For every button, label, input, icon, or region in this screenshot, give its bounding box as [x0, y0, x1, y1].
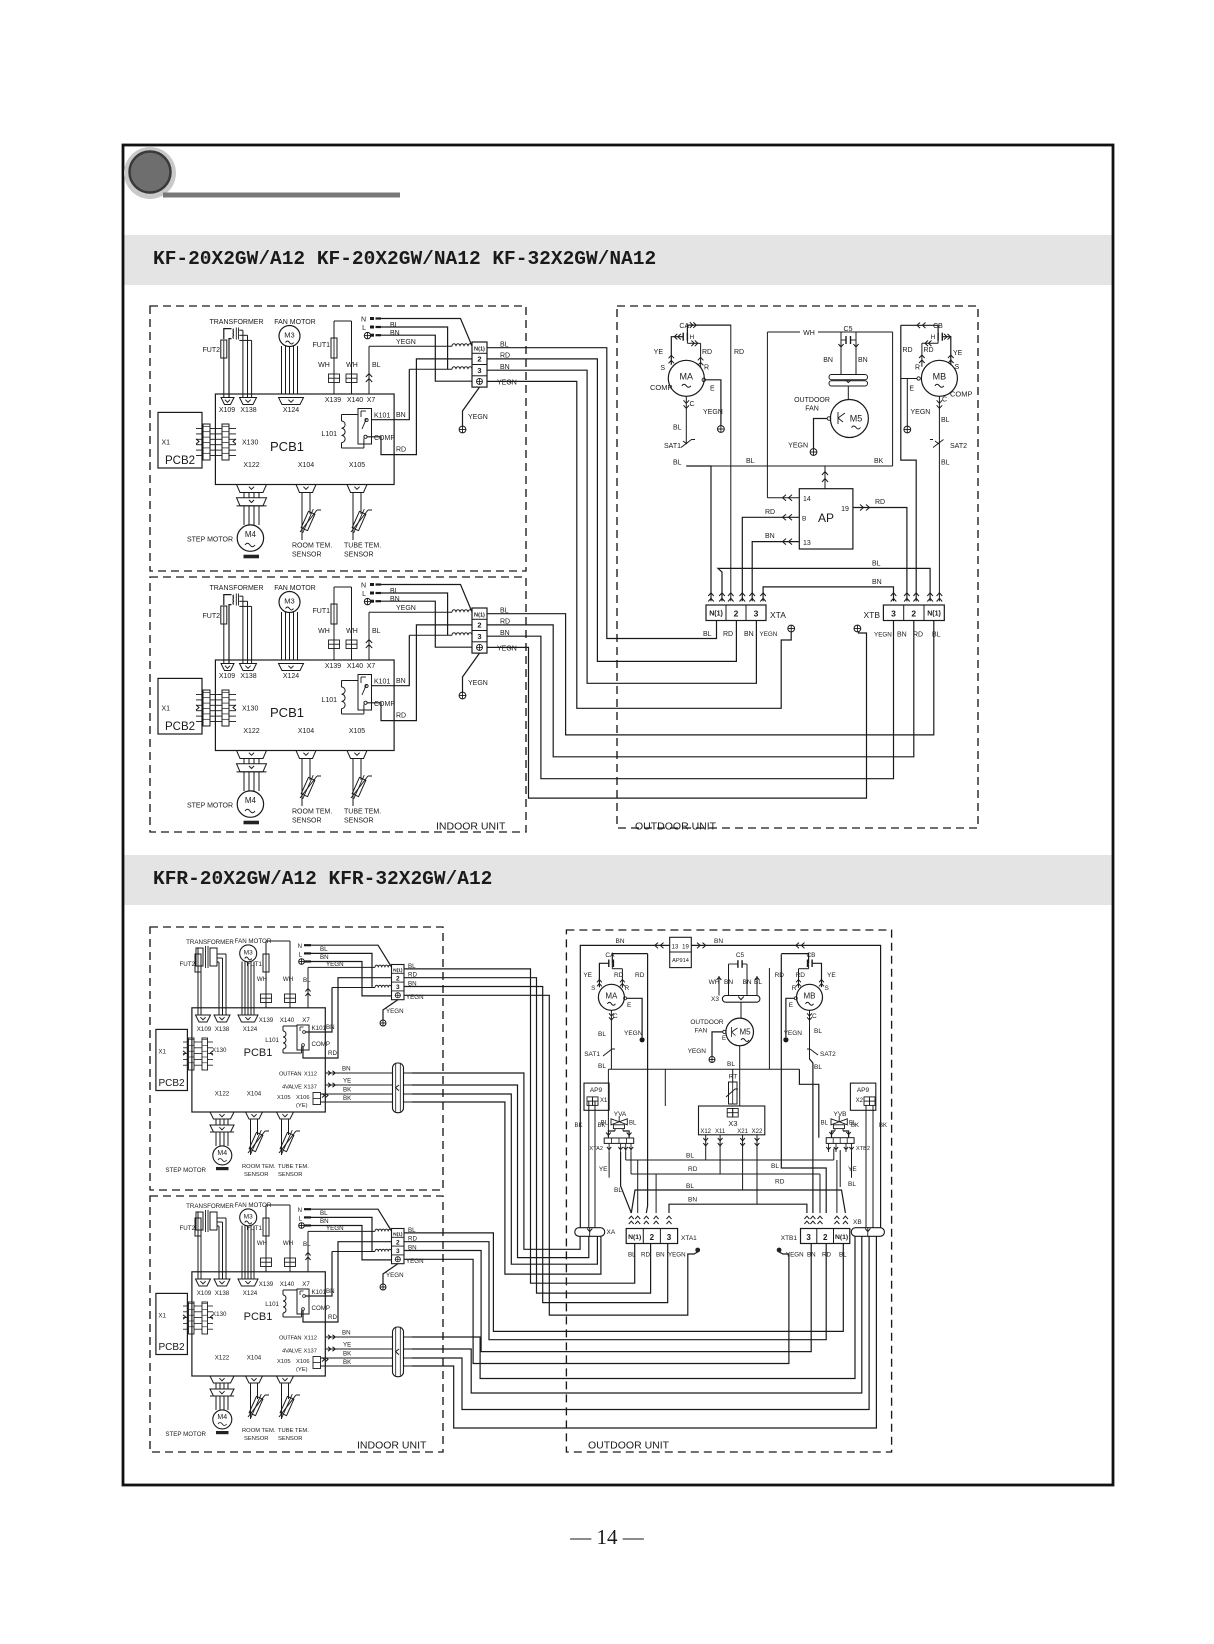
svg-text:S: S: [591, 985, 596, 992]
svg-text:WH: WH: [346, 628, 358, 635]
svg-text:YE: YE: [953, 350, 963, 357]
wires BN YE BK BK d2: [325, 1336, 392, 1338]
connector X124: [279, 664, 304, 671]
svg-text:R: R: [625, 985, 630, 992]
svg-text:BL: BL: [814, 1028, 822, 1035]
outdoor fan M5 d2: [726, 1018, 754, 1046]
svg-text:E: E: [722, 1036, 726, 1042]
wire BN line (y1204): [669, 1204, 807, 1213]
arrow into XTB1: [810, 1216, 815, 1219]
svg-text:BL: BL: [754, 979, 762, 986]
svg-text:RD: RD: [903, 347, 913, 354]
svg-text:FUT2: FUT2: [203, 347, 221, 354]
terminal block XTB1: [801, 1229, 850, 1244]
svg-text:X11: X11: [715, 1129, 726, 1135]
svg-text:YEGN: YEGN: [386, 1272, 404, 1279]
svg-text:SAT1: SAT1: [664, 443, 681, 450]
svg-text:BL: BL: [821, 1121, 829, 1127]
svg-text:XB: XB: [853, 1219, 862, 1226]
terminal XTB2: [826, 1138, 854, 1144]
step motor M4 d2: [213, 1410, 232, 1429]
logo underline bar: [163, 193, 400, 198]
ribbon X1-X130: [203, 424, 210, 460]
overload protector: [829, 375, 868, 380]
wires AP9 to XA: [588, 1101, 590, 1228]
svg-text:2: 2: [823, 1233, 828, 1242]
fuse: [331, 338, 337, 358]
svg-text:BK: BK: [343, 1351, 352, 1358]
ribbon X1-X130 d2: [189, 1302, 195, 1334]
svg-text:BL: BL: [932, 632, 941, 639]
inductor filter upper: [452, 344, 472, 347]
svg-text:19: 19: [682, 945, 689, 951]
wire X3 pin down: [742, 1135, 744, 1190]
wire RD cap to R: [937, 337, 939, 344]
wire MB C down to XTB1: [810, 1059, 813, 1213]
wire RD indoor2 to XTB: [487, 621, 914, 757]
svg-text:BN: BN: [320, 1218, 329, 1225]
arrow into XTA1: [667, 1216, 672, 1219]
svg-text:X112: X112: [304, 1072, 317, 1078]
arrow into XTA: [708, 593, 714, 596]
pin E MB: [917, 377, 920, 380]
terminal block indoor unit 2: [472, 608, 487, 653]
svg-text:X1: X1: [158, 1049, 166, 1056]
wire RD comp d2: [303, 1242, 392, 1322]
inter-unit connector pill d2: [393, 1327, 404, 1377]
wire YEGN below TB d2: [383, 1264, 398, 1284]
svg-text:BL: BL: [941, 460, 950, 467]
ground: [854, 625, 861, 632]
svg-text:BN: BN: [396, 678, 406, 685]
svg-text:RD: RD: [775, 1179, 785, 1186]
svg-text:E: E: [909, 386, 914, 393]
svg-text:RD: RD: [614, 972, 624, 979]
pin C MB down: [938, 396, 940, 443]
svg-text:C5: C5: [844, 326, 853, 333]
wire L: [379, 593, 448, 635]
svg-text:SAT1: SAT1: [584, 1051, 600, 1058]
svg-text:M4: M4: [217, 1150, 227, 1157]
dashed box outdoor unit (diagram 2): [566, 930, 891, 1452]
ground: [459, 426, 466, 433]
svg-text:BL: BL: [629, 1121, 637, 1127]
svg-text:X130: X130: [212, 1311, 227, 1318]
svg-text:N(1): N(1): [835, 1234, 848, 1241]
svg-text:YEGN: YEGN: [497, 380, 517, 387]
wire AP top to fan bottom: [824, 466, 826, 489]
wire BN indoor2 to XTB: [487, 621, 894, 779]
svg-text:(YE): (YE): [296, 1367, 308, 1373]
svg-text:X105: X105: [349, 462, 365, 469]
ribbon X1-X130: [203, 690, 210, 726]
wires WH BL into fan connector: [718, 976, 720, 996]
svg-text:BL: BL: [849, 1121, 857, 1127]
svg-text:STEP MOTOR: STEP MOTOR: [165, 1431, 206, 1438]
wire branch to XTA2: [607, 1069, 609, 1131]
svg-text:X7: X7: [302, 1281, 310, 1288]
step motor M4: [237, 525, 263, 551]
wires AP9 to XB: [865, 1105, 867, 1227]
terminal block indoor d2 unit 2: [392, 1229, 405, 1264]
svg-text:AP9: AP9: [857, 1087, 870, 1094]
wire BK pill2 to XB: [412, 1236, 869, 1409]
svg-text:L101: L101: [265, 1037, 279, 1044]
wire N to terminal block: [379, 319, 472, 347]
wire BN indoor2 d2 to XTB1: [404, 1244, 811, 1352]
wire YEGN MB ground: [906, 379, 908, 427]
terminal block XTA: [706, 605, 766, 621]
svg-text:X105: X105: [277, 1095, 291, 1101]
svg-text:RD: RD: [775, 972, 785, 979]
svg-text:YEGN: YEGN: [668, 1252, 686, 1259]
svg-text:XTB: XTB: [863, 610, 880, 620]
svg-text:YE: YE: [599, 1166, 608, 1173]
svg-text:N: N: [298, 944, 302, 950]
dashed box indoor unit 1: [150, 306, 526, 571]
svg-text:BN: BN: [320, 954, 329, 961]
svg-text:N(1): N(1): [393, 1231, 403, 1237]
svg-text:C: C: [812, 1013, 817, 1020]
svg-text:MB: MB: [804, 991, 816, 1000]
svg-text:X138: X138: [215, 1026, 230, 1033]
svg-text:X112: X112: [304, 1336, 317, 1342]
svg-text:BK: BK: [343, 1087, 352, 1094]
wire BN relay to line: [372, 635, 410, 685]
connector X124 d2: [238, 1015, 258, 1022]
svg-text:3: 3: [396, 984, 400, 991]
ground: [364, 332, 370, 338]
svg-text:BL: BL: [303, 1241, 311, 1248]
arrow into XTA1: [629, 1216, 634, 1219]
svg-text:M3: M3: [284, 597, 294, 606]
connector X140 d2: [285, 994, 291, 1003]
arrow into XTB1: [818, 1216, 823, 1219]
wire YEGN indoor1 d2 to ground dot: [404, 995, 698, 1315]
svg-text:COMP: COMP: [950, 390, 973, 399]
wire L d2: [311, 953, 372, 987]
svg-text:S: S: [660, 365, 665, 372]
svg-text:BN: BN: [396, 412, 406, 419]
connector X105 sensor d2: [277, 1112, 294, 1119]
svg-text:BN: BN: [390, 330, 400, 337]
svg-text:S: S: [825, 985, 830, 992]
wire YE left: [608, 1152, 610, 1178]
svg-text:C: C: [613, 1013, 618, 1020]
svg-text:MA: MA: [680, 371, 694, 381]
svg-text:FUT2: FUT2: [180, 1225, 196, 1232]
svg-text:BL: BL: [673, 425, 682, 432]
svg-text:3: 3: [754, 609, 759, 619]
svg-text:TUBE TEM.: TUBE TEM.: [278, 1428, 309, 1434]
svg-text:X109: X109: [219, 407, 235, 414]
arrow into XTB: [904, 593, 910, 596]
svg-text:AP914: AP914: [672, 958, 689, 964]
svg-text:XTB1: XTB1: [781, 1235, 798, 1242]
arrow into XTB: [927, 593, 933, 596]
wire YEGN below TB d2: [383, 1000, 398, 1020]
svg-text:BN: BN: [326, 1024, 335, 1031]
svg-text:TRANSFORMER: TRANSFORMER: [209, 585, 263, 592]
svg-text:CB: CB: [806, 952, 815, 959]
svg-text:TUBE TEM.: TUBE TEM.: [278, 1164, 309, 1170]
svg-text:BN: BN: [688, 1197, 697, 1204]
fuse: [331, 604, 337, 624]
svg-text:BL: BL: [686, 1153, 694, 1160]
arrow into XTB1: [804, 1216, 809, 1219]
svg-text:SENSOR: SENSOR: [244, 1436, 268, 1442]
svg-text:K101: K101: [374, 679, 390, 686]
svg-text:L: L: [362, 325, 366, 332]
svg-text:FUT1: FUT1: [313, 342, 331, 349]
svg-text:SENSOR: SENSOR: [292, 552, 322, 559]
compressor MA: [668, 360, 704, 396]
svg-text:N(1): N(1): [628, 1234, 641, 1241]
svg-text:WH: WH: [283, 976, 293, 983]
svg-text:X21: X21: [737, 1129, 748, 1135]
wire BL line 1 (y1160): [625, 1152, 627, 1160]
svg-text:BN: BN: [724, 979, 733, 986]
svg-text:(YE): (YE): [296, 1103, 308, 1109]
svg-text:RD: RD: [702, 349, 712, 356]
svg-text:R: R: [915, 365, 920, 372]
svg-text:X139: X139: [259, 1017, 274, 1024]
svg-text:RD: RD: [635, 972, 645, 979]
svg-text:OUTDOOR: OUTDOOR: [690, 1019, 724, 1026]
wire BN AP914 right: [691, 945, 880, 1227]
connector X139: [329, 640, 335, 649]
wire B RD to XTA-2: [742, 517, 799, 601]
svg-text:YE: YE: [583, 972, 592, 979]
svg-text:ROOM TEM.: ROOM TEM.: [292, 543, 332, 550]
svg-text:BL: BL: [598, 1063, 606, 1070]
wire YEGN to ground below terminal block: [463, 387, 480, 426]
inductor filter lower: [452, 367, 472, 370]
svg-text:C5: C5: [736, 952, 745, 959]
dashed box indoor unit 2: [150, 577, 526, 832]
svg-text:2: 2: [734, 609, 739, 619]
svg-text:WH: WH: [257, 976, 267, 983]
svg-text:FUT1: FUT1: [313, 608, 331, 615]
wire RD comp d2: [303, 978, 392, 1058]
wire MA C joins BL line: [610, 1059, 612, 1069]
svg-text:YEGN: YEGN: [760, 631, 778, 638]
svg-text:RD: RD: [924, 347, 934, 354]
connector X139 d2: [261, 994, 267, 1003]
svg-text:BL: BL: [320, 946, 328, 953]
svg-text:BN: BN: [897, 632, 907, 639]
svg-text:BL: BL: [614, 1187, 622, 1194]
svg-text:3: 3: [891, 609, 896, 619]
wire BL line 2 (y1190): [631, 1190, 845, 1213]
svg-text:X140: X140: [347, 663, 363, 670]
wire BN relay to line: [372, 369, 410, 419]
ground: [718, 426, 725, 433]
svg-text:H: H: [689, 334, 694, 341]
svg-text:BN: BN: [615, 938, 624, 945]
svg-text:BL: BL: [372, 362, 381, 369]
svg-text:COMP: COMP: [374, 435, 395, 442]
thermistor: [351, 508, 368, 535]
fuse: [195, 1218, 201, 1236]
thermistor: [248, 1129, 265, 1156]
svg-text:PCB1: PCB1: [270, 705, 304, 720]
wire N to terminal block: [379, 585, 472, 613]
arrow into XTA: [749, 593, 755, 596]
connector X140 d2: [285, 1258, 291, 1267]
connector X139 d2: [261, 1258, 267, 1267]
svg-text:OUTDOOR UNIT: OUTDOOR UNIT: [635, 821, 717, 833]
svg-text:BL: BL: [746, 458, 755, 465]
PCB2: [158, 412, 202, 468]
control box AP914: [670, 937, 692, 967]
svg-text:2: 2: [396, 975, 400, 982]
wire BN indoor1 to XTA: [487, 370, 756, 683]
ground: [364, 598, 370, 604]
svg-text:AP9: AP9: [590, 1087, 603, 1094]
svg-text:BN: BN: [858, 357, 868, 364]
inductors d2: [375, 1229, 391, 1231]
connector X105 sensor d2: [277, 1376, 294, 1383]
svg-text:RD: RD: [765, 509, 775, 516]
PCB2: [158, 678, 202, 734]
svg-text:M3: M3: [244, 1214, 253, 1221]
svg-text:BN: BN: [390, 596, 400, 603]
wire RD comp to terminal 2: [367, 359, 472, 455]
svg-text:STEP MOTOR: STEP MOTOR: [187, 803, 233, 810]
fuse: [221, 340, 227, 358]
terminal block XTB: [883, 605, 944, 621]
fuse: [263, 1218, 269, 1236]
thermistor: [248, 1393, 265, 1420]
thermistor: [300, 774, 317, 801]
wire RD indoor2 d2 to XTB1: [404, 1242, 826, 1340]
svg-text:BL: BL: [673, 460, 682, 467]
svg-text:SAT2: SAT2: [820, 1051, 836, 1058]
wire YE pill2 to XB: [412, 1236, 862, 1393]
PCB1: [215, 660, 394, 751]
wire MB C to XTB N(1): [938, 443, 940, 601]
svg-text:— 14 —: — 14 —: [569, 1525, 645, 1549]
wire 13 BN to XTA-3: [752, 542, 799, 602]
svg-text:RD: RD: [688, 1166, 698, 1173]
arrow into XTA: [719, 593, 725, 596]
svg-text:X140: X140: [347, 397, 363, 404]
step motor M4: [237, 791, 263, 817]
svg-text:SENSOR: SENSOR: [244, 1172, 268, 1178]
relay K101: [358, 675, 372, 711]
svg-text:YVA: YVA: [614, 1111, 627, 1118]
wire BL indoor2 d2 to XTB1: [404, 1233, 843, 1332]
svg-text:BL: BL: [848, 1181, 856, 1188]
YVA wires to XTA2: [614, 1129, 616, 1131]
svg-text:BL: BL: [390, 322, 399, 329]
arrow into XTA: [760, 593, 766, 596]
outdoor fan M5: [830, 400, 868, 438]
arrow into XTA1: [654, 1216, 659, 1219]
terminal block indoor unit 1: [472, 342, 487, 387]
connector X140: [346, 640, 352, 649]
svg-text:13: 13: [672, 945, 679, 951]
svg-text:BK: BK: [343, 1359, 352, 1366]
ground: [380, 1020, 386, 1026]
svg-text:YEGN: YEGN: [874, 632, 892, 639]
svg-text:YE: YE: [848, 1166, 857, 1173]
connector X139: [329, 374, 335, 383]
svg-text:WH: WH: [257, 1240, 267, 1247]
relay K101 d2: [297, 1289, 309, 1314]
svg-text:PCB1: PCB1: [244, 1311, 273, 1323]
svg-text:X1: X1: [600, 1098, 608, 1104]
svg-text:RD: RD: [723, 631, 733, 638]
svg-text:YEGN: YEGN: [497, 646, 517, 653]
svg-text:BN: BN: [342, 1066, 351, 1073]
svg-text:COMP: COMP: [312, 1305, 331, 1312]
svg-text:MB: MB: [933, 371, 947, 381]
ground: [810, 449, 817, 456]
svg-text:X105: X105: [349, 728, 365, 735]
svg-text:X109: X109: [197, 1026, 212, 1033]
svg-text:N(1): N(1): [709, 611, 723, 618]
svg-text:B: B: [802, 516, 806, 523]
svg-text:X137: X137: [303, 1085, 317, 1091]
arrow into XTB: [913, 593, 919, 596]
svg-text:X109: X109: [197, 1290, 212, 1297]
svg-text:4VALVE: 4VALVE: [282, 1349, 302, 1355]
wire BN K101 d2: [305, 988, 332, 1033]
svg-text:INDOOR UNIT: INDOOR UNIT: [357, 1440, 427, 1452]
svg-text:K101: K101: [312, 1025, 327, 1032]
inductors d2: [375, 965, 391, 967]
XTA2 bottom arrows: [608, 1143, 610, 1152]
connector inline step motor: [237, 498, 267, 506]
svg-text:X138: X138: [240, 673, 256, 680]
svg-text:SENSOR: SENSOR: [344, 818, 374, 825]
PCB1: [215, 394, 394, 485]
svg-text:MA: MA: [605, 991, 618, 1000]
svg-text:BN: BN: [326, 1288, 335, 1295]
svg-text:X104: X104: [247, 1355, 262, 1362]
wire YEGN indoor2 to XTB ground: [487, 632, 867, 798]
svg-text:WH: WH: [346, 362, 358, 369]
svg-text:3: 3: [806, 1233, 811, 1242]
wire MA C to XTA N(1): [686, 466, 711, 601]
svg-text:WH: WH: [709, 979, 720, 986]
wire BK pill1 to XA: [412, 1094, 597, 1264]
wire BN K101 d2: [305, 1252, 332, 1297]
svg-text:C: C: [690, 401, 695, 408]
ground: [380, 1284, 386, 1290]
title bar 2: [125, 855, 1112, 905]
page border: [123, 145, 1113, 1485]
svg-text:FAN MOTOR: FAN MOTOR: [274, 585, 315, 592]
svg-text:TUBE TEM.: TUBE TEM.: [344, 809, 381, 816]
svg-text:X139: X139: [259, 1281, 274, 1288]
svg-text:BL: BL: [872, 561, 881, 568]
wire RD indoor1 d2 to XTA1: [404, 978, 651, 1293]
svg-text:BL: BL: [941, 417, 950, 424]
terminal block XTA1: [626, 1229, 677, 1244]
svg-text:M5: M5: [739, 1028, 751, 1037]
svg-text:X130: X130: [242, 706, 258, 713]
wire BK2 pill1 to XA: [412, 1102, 601, 1274]
wire BL middle: [608, 1068, 799, 1070]
svg-text:BL: BL: [601, 1121, 609, 1127]
svg-text:2: 2: [396, 1239, 400, 1246]
svg-text:YE: YE: [654, 349, 664, 356]
svg-text:X130: X130: [212, 1047, 227, 1054]
svg-text:4VALVE: 4VALVE: [282, 1085, 302, 1091]
